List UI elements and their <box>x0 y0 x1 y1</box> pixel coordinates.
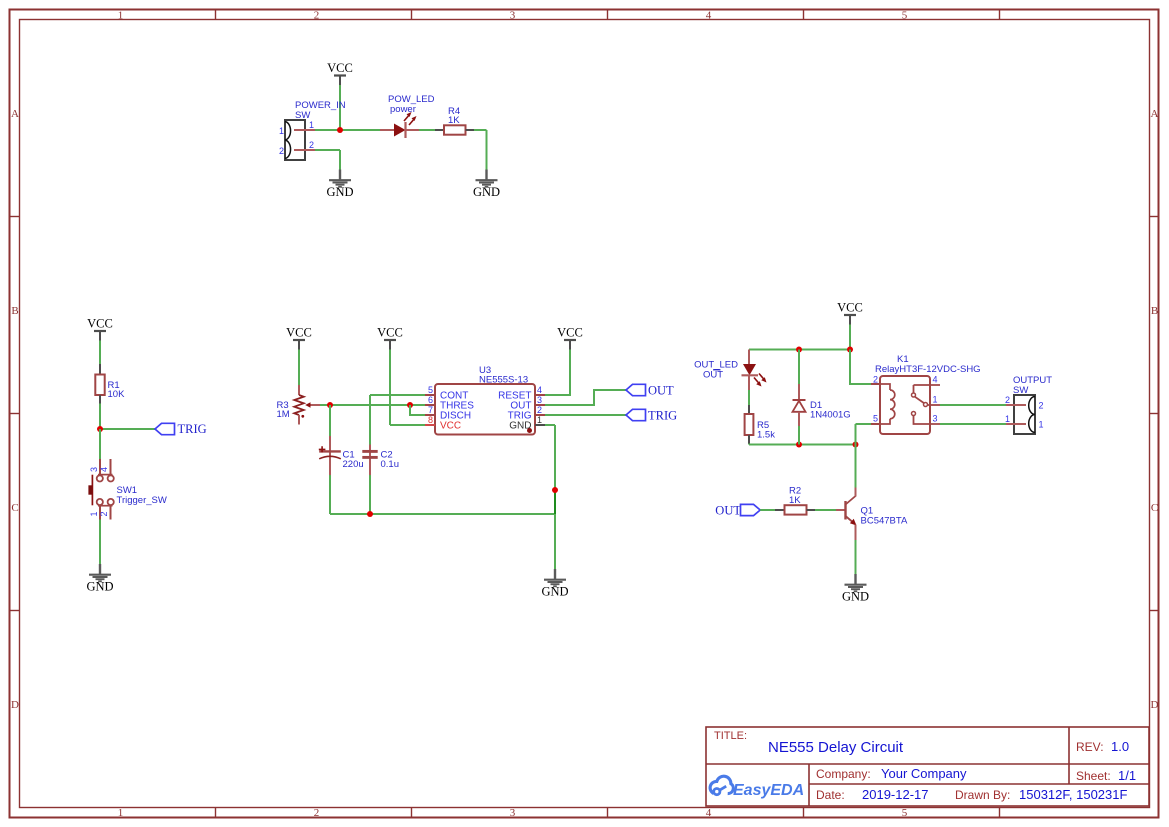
wire top rail <box>749 349 850 351</box>
svg-text:1: 1 <box>279 126 284 136</box>
svg-text:Drawn By:: Drawn By: <box>955 788 1010 802</box>
svg-text:power: power <box>390 104 416 115</box>
wire collector down <box>855 445 857 488</box>
wire D1 to bottom rail <box>798 426 800 445</box>
wire SW1 to GND <box>99 520 101 565</box>
svg-text:OUT: OUT <box>703 370 723 381</box>
svg-text:B: B <box>11 305 18 317</box>
wire R4 to GND corner <box>474 129 487 131</box>
LED OUT_LED OUT <box>694 350 766 391</box>
svg-text:1: 1 <box>118 10 124 22</box>
power flag VCC (U3 pin8) <box>377 326 403 350</box>
svg-text:1: 1 <box>1005 414 1010 424</box>
svg-text:2: 2 <box>873 375 878 385</box>
svg-text:D: D <box>1151 699 1159 711</box>
svg-text:4: 4 <box>706 807 712 819</box>
wire down to GND <box>486 130 488 170</box>
ground GND (Q1 emitter) <box>842 574 869 604</box>
node TRIG junction <box>97 426 103 432</box>
node I junction (collector) <box>853 442 859 448</box>
wire LED to R5 <box>748 390 750 405</box>
wire VCC to node A <box>339 85 341 130</box>
svg-text:7: 7 <box>428 405 433 415</box>
capacitor C1 220u <box>319 436 364 475</box>
svg-text:REV:: REV: <box>1076 740 1104 754</box>
wire bottom rail (LED/D1/relay) <box>749 444 856 446</box>
wire VCC to relay coil pin2 <box>850 350 871 385</box>
power flag VCC (net VCC, top) <box>327 61 353 85</box>
power flag VCC (R1 top) <box>87 317 113 341</box>
svg-text:Company:: Company: <box>816 767 871 781</box>
svg-text:2: 2 <box>1005 395 1010 405</box>
wire C2 vertical <box>369 395 371 445</box>
svg-text:Your Company: Your Company <box>881 766 967 781</box>
node E junction <box>552 487 558 493</box>
ground GND (U3) <box>541 569 568 599</box>
svg-text:2: 2 <box>309 140 314 150</box>
svg-text:C: C <box>1151 502 1158 514</box>
wire relay pin5 left <box>856 423 872 425</box>
svg-text:Sheet:: Sheet: <box>1076 769 1111 783</box>
wire to pin8 <box>390 424 425 426</box>
wire overlap segment <box>554 490 556 514</box>
svg-text:OUT: OUT <box>715 503 741 517</box>
title block <box>706 727 1149 806</box>
CIRCUIT <box>279 61 500 199</box>
wire LED cathode to R4 <box>419 129 435 131</box>
wire DISCH branch <box>410 405 425 415</box>
wire R3 wiper to node B <box>320 404 330 406</box>
wire R1 to node TRIG <box>99 404 101 430</box>
net flag TRIG (U3 pin2) <box>626 408 677 422</box>
svg-text:1K: 1K <box>789 495 801 506</box>
svg-text:220u: 220u <box>343 459 364 470</box>
svg-text:3: 3 <box>510 807 516 819</box>
node A junction (VCC / SW pin1) <box>337 127 343 133</box>
resistor R4 1K <box>435 106 474 135</box>
svg-text:TRIG: TRIG <box>178 422 207 436</box>
wire emitter to GND <box>855 540 857 574</box>
svg-text:OUT: OUT <box>648 383 674 397</box>
node F junction (D1 top) <box>796 347 802 353</box>
svg-text:3: 3 <box>510 10 516 22</box>
svg-text:VCC: VCC <box>440 421 461 432</box>
net flag OUT (to base) <box>715 503 760 517</box>
connector OUTPUT SW <box>1005 375 1052 434</box>
svg-text:2: 2 <box>537 405 542 415</box>
diode D1 1N4001G <box>793 384 851 426</box>
svg-text:2: 2 <box>99 511 109 516</box>
resistor R1 10K <box>95 364 125 404</box>
wire R5 to bottom rail <box>748 444 750 445</box>
wire GND pin down <box>554 425 556 569</box>
transistor Q1 BC547BTA <box>836 488 908 541</box>
svg-text:D: D <box>11 699 19 711</box>
svg-text:1: 1 <box>309 120 314 130</box>
ground GND (under R4) <box>473 170 500 200</box>
svg-text:150312F, 150231F: 150312F, 150231F <box>1019 787 1127 802</box>
resistor R5 1.5k <box>745 405 776 444</box>
wire relay pin5 down to rail <box>855 424 857 445</box>
ground GND (under SW1) <box>86 564 113 594</box>
wire relay pin1 to connector <box>940 404 1006 406</box>
svg-text:3: 3 <box>933 414 938 424</box>
svg-text:4: 4 <box>99 467 109 472</box>
svg-text:0.1u: 0.1u <box>381 459 400 470</box>
switch SW1 Trigger_SW <box>88 459 166 520</box>
connector POWER_IN SW <box>279 100 346 160</box>
wire node TRIG to flag <box>100 428 155 430</box>
wire VCC down <box>849 325 851 350</box>
wire VCC down to pin8 row <box>389 350 391 426</box>
svg-text:RelayHT3F-12VDC-SHG: RelayHT3F-12VDC-SHG <box>875 364 981 375</box>
wire RESET to VCC <box>545 350 570 396</box>
wire SW pin2 down to GND <box>339 150 341 170</box>
svg-text:6: 6 <box>428 395 433 405</box>
wire bottom rail <box>330 513 555 515</box>
svg-text:1.0: 1.0 <box>1111 739 1129 754</box>
wire node B to THRES <box>330 404 425 406</box>
resistor R3 1M (rheostat) <box>277 385 321 425</box>
op-amp U3 NE555S-13 <box>425 365 545 435</box>
svg-text:2: 2 <box>279 146 284 156</box>
svg-text:TITLE:: TITLE: <box>714 730 747 742</box>
svg-text:5: 5 <box>873 414 878 424</box>
svg-text:B: B <box>1151 305 1158 317</box>
wire R2 to base <box>815 509 836 511</box>
node G junction (VCC tap) <box>847 347 853 353</box>
wire node B down to C1 <box>329 405 331 436</box>
svg-text:Trigger_SW: Trigger_SW <box>117 495 167 506</box>
wire C2 to bottom rail <box>369 475 371 514</box>
wire OUT pin to flag <box>545 390 626 405</box>
svg-text:1/1: 1/1 <box>1118 768 1136 783</box>
wire SW pin2 right <box>315 149 340 151</box>
power flag VCC (R3 top) <box>286 326 312 350</box>
svg-text:3: 3 <box>537 395 542 405</box>
svg-text:2: 2 <box>314 807 320 819</box>
svg-text:A: A <box>1151 108 1159 120</box>
capacitor C2 0.1u <box>362 445 399 476</box>
net flag OUT (U3 output) <box>626 383 674 397</box>
wire GND pin right <box>545 424 555 426</box>
svg-text:1: 1 <box>537 415 542 425</box>
svg-text:1: 1 <box>118 807 124 819</box>
svg-text:1: 1 <box>1039 420 1044 430</box>
svg-text:BC547BTA: BC547BTA <box>861 516 908 527</box>
relay K1 RelayHT3F-12VDC-SHG <box>871 354 981 434</box>
svg-text:1: 1 <box>933 395 938 405</box>
svg-text:2: 2 <box>314 10 320 22</box>
svg-text:4: 4 <box>537 385 542 395</box>
LED POW_LED power <box>380 94 435 138</box>
wire node TRIG to SW1 <box>99 429 101 459</box>
svg-text:8: 8 <box>428 415 433 425</box>
svg-text:5: 5 <box>902 10 908 22</box>
svg-text:2019-12-17: 2019-12-17 <box>862 787 929 802</box>
wire flag to R2 <box>760 509 775 511</box>
EasyEDA logo <box>710 776 804 799</box>
node H junction (D1 bottom) <box>796 442 802 448</box>
ground GND (under SW pin2) <box>326 170 353 200</box>
svg-text:1N4001G: 1N4001G <box>810 410 851 421</box>
svg-text:10K: 10K <box>108 389 126 400</box>
wire SW pin1 to LED anode <box>315 129 380 131</box>
svg-text:A: A <box>11 108 19 120</box>
svg-text:5: 5 <box>428 385 433 395</box>
svg-text:3: 3 <box>89 467 99 472</box>
svg-text:4: 4 <box>706 10 712 22</box>
node B junction <box>327 402 333 408</box>
svg-text:C: C <box>11 502 18 514</box>
wire VCC to R3 <box>298 350 300 386</box>
resistor R2 1K <box>775 486 815 515</box>
power flag VCC (RESET) <box>557 326 583 350</box>
wire VCC to R1 <box>99 341 101 365</box>
wire TRIG pin to flag <box>545 414 626 416</box>
net flag TRIG <box>155 422 207 436</box>
svg-text:NE555 Delay Circuit: NE555 Delay Circuit <box>768 739 904 756</box>
svg-text:2: 2 <box>1039 401 1044 411</box>
svg-text:5: 5 <box>902 807 908 819</box>
wire C1 to bottom rail <box>329 475 331 514</box>
wire D1 top <box>798 350 800 385</box>
svg-text:TRIG: TRIG <box>648 408 677 422</box>
svg-text:Date:: Date: <box>816 788 845 802</box>
wire CONT to C2 <box>370 394 425 396</box>
node D junction (C2 on bottom rail) <box>367 511 373 517</box>
svg-text:4: 4 <box>933 375 938 385</box>
svg-text:EasyEDA: EasyEDA <box>733 782 804 799</box>
node C junction (THRES/DISCH) <box>407 402 413 408</box>
power flag VCC (relay) <box>837 301 863 325</box>
svg-text:1: 1 <box>89 511 99 516</box>
svg-text:1.5k: 1.5k <box>757 430 775 441</box>
svg-text:1M: 1M <box>277 409 290 420</box>
wire relay pin3 to connector <box>940 423 1006 425</box>
